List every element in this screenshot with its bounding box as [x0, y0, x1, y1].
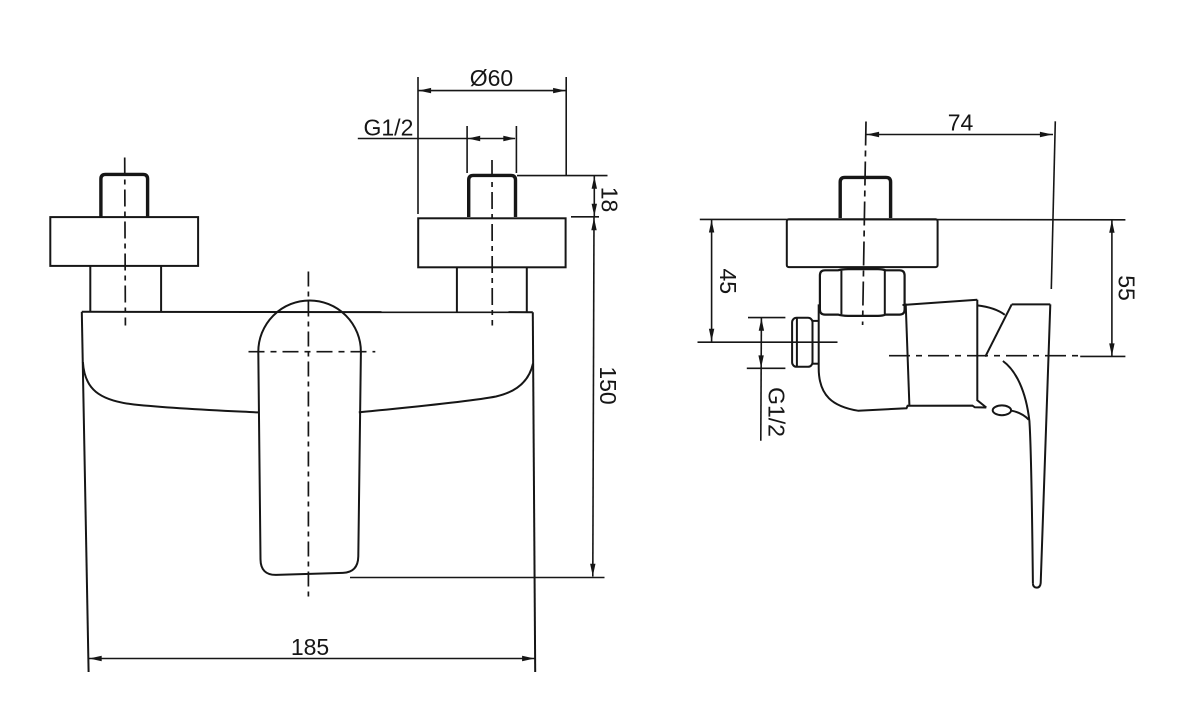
front view: right inlet pipe right edge — [526, 267, 528, 312]
front view: body left shoulder curve — [83, 362, 258, 412]
dim 74: right arrowhead — [1040, 132, 1053, 137]
dim G1/2 side: up arrowhead — [759, 318, 764, 331]
dim 74: right extension line — [1051, 121, 1055, 289]
svg-text:185: 185 — [291, 634, 329, 660]
front view: left union square connector G1/2 — [101, 174, 148, 216]
dim 185: left arrowhead — [89, 656, 102, 661]
dim 185: dimension line — [89, 658, 536, 660]
dim 18: down arrowhead — [592, 204, 597, 217]
side view: union square connector — [840, 177, 890, 218]
front view: lever handle silhouette — [258, 301, 361, 575]
svg-text:G1/2: G1/2 — [763, 387, 789, 437]
dim G1/2 front: right extension line — [515, 126, 517, 173]
side view: handle socket front slant — [985, 304, 1011, 356]
dim 74: left arrowhead — [867, 132, 880, 137]
dim 185: right arrowhead — [522, 656, 535, 661]
dim 18: lower extension line — [571, 216, 599, 218]
front view: left inlet pipe right edge — [160, 266, 162, 312]
side view: body left edge with round bottom corner and bottom edge — [819, 304, 987, 410]
dim Ø60: right extension line — [565, 77, 567, 176]
svg-text:18: 18 — [596, 187, 622, 213]
front view: left inlet pipe left edge — [89, 266, 91, 312]
dim 45: down arrowhead — [709, 329, 714, 342]
front view: right inlet pipe left edge — [456, 267, 458, 312]
svg-text:55: 55 — [1113, 275, 1139, 301]
svg-text:G1/2: G1/2 — [364, 115, 414, 141]
side view: hex nut outline — [820, 269, 905, 316]
dim 150: down arrowhead — [590, 564, 595, 577]
side view: hex nut left facet line — [840, 271, 842, 315]
dim G1/2 front: left extension line — [466, 126, 468, 173]
dim 18: top extension line — [517, 175, 608, 177]
front view: body right shoulder curve — [359, 364, 533, 413]
svg-text:150: 150 — [595, 366, 621, 404]
front view: handle horizontal centerline — [249, 351, 376, 353]
dim 150: up arrowhead — [591, 218, 596, 231]
dim 55: up arrowhead — [1109, 220, 1114, 233]
front view: mixer body left edge / 185 extension — [82, 312, 89, 672]
dim G1/2 side: top extension line — [748, 317, 785, 319]
front view: right fitting centerline — [491, 160, 493, 326]
svg-text:45: 45 — [715, 269, 741, 295]
dim 45: dimension line — [711, 220, 713, 342]
dim 45: up arrowhead — [709, 220, 714, 233]
dim 18: up arrowhead — [592, 176, 597, 189]
side view: body horizontal centerline — [889, 355, 1078, 357]
dim 55: bottom extension line — [1080, 355, 1125, 357]
svg-text:Ø60: Ø60 — [470, 65, 513, 91]
side view: outlet connector top edge — [813, 320, 819, 322]
front view: mixer body right edge / 185 extension — [533, 312, 535, 672]
side view: G1/2 outlet nipple — [792, 318, 812, 367]
dim 150: dimension line — [593, 218, 594, 577]
front view: mixer body top edge — [82, 311, 533, 313]
side view: cartridge joint line — [906, 304, 910, 406]
side view: outlet nipple rim line — [796, 318, 798, 366]
dim Ø60: left extension line — [417, 77, 419, 214]
side view: handle screw cover ellipse — [993, 405, 1011, 415]
dim G1/2 side: dimension line — [760, 318, 763, 441]
dim 55: dimension line — [1111, 220, 1113, 356]
front view: right escutcheon flange — [418, 218, 565, 267]
side view: escutcheon plate — [787, 219, 938, 267]
side view: handle blade inner edge sweep — [1003, 361, 1033, 583]
dim Ø60: right arrowhead — [553, 88, 566, 93]
front view: left escutcheon flange — [50, 217, 198, 266]
side view: outlet axis line — [698, 341, 838, 343]
dim 45: top extension line — [700, 218, 787, 220]
side view: handle socket top edge — [1012, 303, 1051, 305]
side view: cap-to-socket transition arc — [977, 305, 1004, 314]
dim 150: bottom extension line from handle — [350, 577, 605, 579]
side view: fitting centerline — [863, 122, 866, 326]
svg-text:74: 74 — [948, 110, 974, 136]
dim 55: down arrowhead — [1109, 343, 1114, 356]
dim Ø60: left arrowhead — [419, 88, 432, 93]
side view: outlet connector bottom edge — [813, 363, 819, 365]
dim 74: dimension line — [866, 134, 1053, 136]
dim 55: top extension line — [787, 218, 1126, 220]
dim G1/2 front: leader and dimension line — [358, 138, 515, 140]
side view: socket underside curve — [1011, 411, 1028, 420]
dim 18: dimension line — [593, 176, 595, 217]
side view: cap right edge — [977, 300, 986, 408]
side view: handle blade outer edge and tip — [1033, 304, 1050, 587]
dim Ø60: dimension line — [418, 90, 566, 92]
side view: hex nut right facet line — [884, 271, 886, 315]
side view: body top edge — [903, 300, 978, 305]
dim G1/2 front: left arrowhead — [468, 136, 481, 141]
dim G1/2 side: down arrowhead — [758, 355, 763, 368]
dim G1/2 front: right arrowhead — [503, 136, 516, 141]
front view: handle vertical centerline — [307, 272, 309, 598]
front view: left fitting centerline — [124, 158, 127, 326]
front view: right union square connector G1/2 — [469, 175, 516, 217]
dim G1/2 side: bottom extension line — [747, 367, 786, 369]
